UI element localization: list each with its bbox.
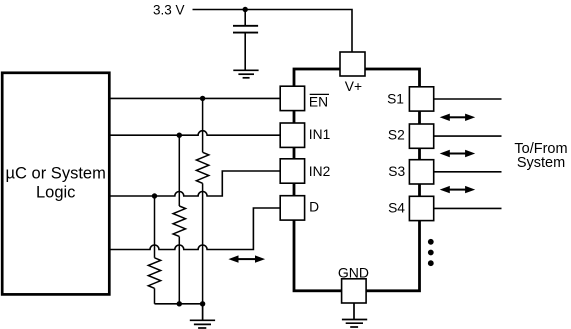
capacitor C1 bbox=[233, 10, 258, 71]
ground (resistor bus) bbox=[190, 304, 215, 328]
svg-text:EN: EN bbox=[309, 95, 328, 110]
pin V+ bbox=[340, 52, 365, 76]
bidirectional arrow S1/S2 bbox=[440, 114, 476, 121]
wire S1 bbox=[434, 98, 502, 100]
wire D net (hops over R3 R2 R1 legs) bbox=[109, 208, 280, 250]
pin S4 bbox=[409, 196, 433, 220]
junction dot IN2/R3 bbox=[152, 193, 157, 198]
pin EN bbox=[280, 86, 304, 110]
resistor R1 (pull-down on EN) bbox=[196, 98, 208, 303]
svg-text:D: D bbox=[309, 200, 319, 215]
pin D bbox=[280, 196, 304, 220]
wire IN1 net (hops over R1 leg) bbox=[109, 131, 280, 136]
bidirectional arrow on D net bbox=[228, 255, 265, 262]
svg-text:IN2: IN2 bbox=[309, 164, 330, 179]
junction dot R2/ground bus bbox=[177, 301, 182, 306]
svg-text:System: System bbox=[517, 155, 565, 171]
junction dot at capacitor tap bbox=[243, 7, 248, 12]
wire S4 bbox=[434, 207, 502, 209]
junction dot R1/ground bus bbox=[200, 301, 205, 306]
wire 3.3V rail bbox=[193, 10, 353, 53]
pin S2 bbox=[409, 124, 433, 148]
pin GND bbox=[342, 279, 367, 303]
ground (GND pin) bbox=[342, 303, 367, 327]
wire EN net bbox=[109, 97, 280, 99]
resistor R3 (pull-down on IN2) bbox=[148, 196, 160, 304]
svg-text:3.3 V: 3.3 V bbox=[153, 3, 185, 18]
svg-text:µC or System: µC or System bbox=[6, 165, 106, 183]
resistor R2 (pull-down on IN1) bbox=[173, 135, 185, 304]
analog switch IC U1 body bbox=[294, 69, 420, 291]
wire ground bus (bottom of resistors) bbox=[155, 303, 203, 305]
junction dot EN/R1 bbox=[200, 96, 205, 101]
ground (below capacitor) bbox=[233, 70, 258, 78]
pin IN2 bbox=[280, 159, 304, 183]
svg-text:S4: S4 bbox=[388, 201, 405, 216]
wire S2 bbox=[434, 135, 502, 137]
pin S3 bbox=[409, 160, 433, 184]
svg-text:S3: S3 bbox=[388, 164, 405, 179]
junction dot IN1/R2 bbox=[177, 133, 182, 138]
ellipsis dots (more switches) bbox=[428, 239, 434, 266]
microcontroller box U2 bbox=[2, 73, 109, 295]
svg-text:IN1: IN1 bbox=[309, 127, 330, 142]
svg-text:Logic: Logic bbox=[36, 184, 75, 202]
svg-text:GND: GND bbox=[338, 264, 369, 280]
bidirectional arrow S2/S3 bbox=[440, 150, 476, 157]
pin IN1 bbox=[280, 123, 304, 147]
wire S3 bbox=[434, 171, 502, 173]
pin S1 bbox=[409, 87, 433, 111]
bidirectional arrow S3/S4 bbox=[440, 186, 476, 193]
svg-text:V+: V+ bbox=[345, 79, 362, 94]
svg-text:S2: S2 bbox=[388, 128, 405, 143]
svg-text:S1: S1 bbox=[387, 92, 404, 107]
wire IN2 net (hops over R2 and R1 legs) bbox=[109, 171, 280, 196]
